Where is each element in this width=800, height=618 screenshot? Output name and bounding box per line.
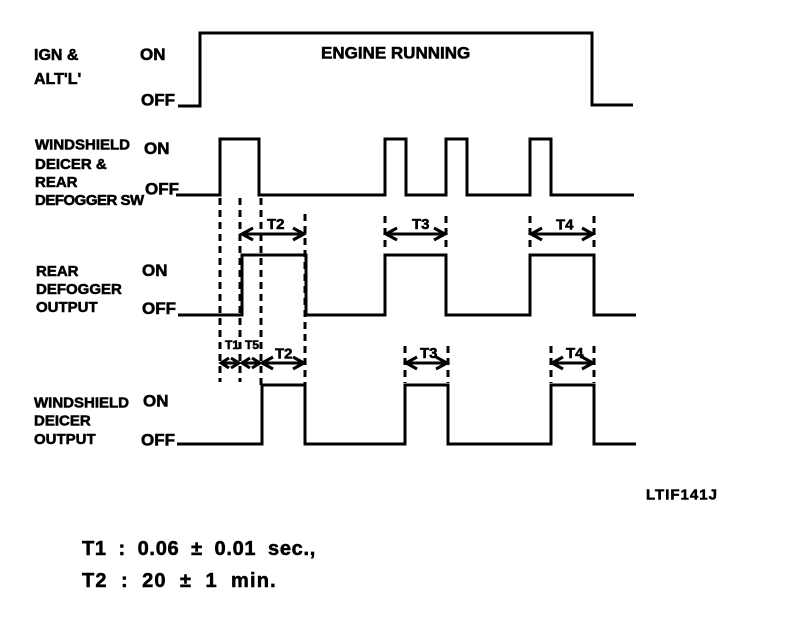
svg-text:LTIF141J: LTIF141J [646, 487, 718, 504]
arrow T3 (upper row) [386, 228, 445, 240]
arrow T5 (lower row) [242, 358, 260, 368]
svg-text:T1: T1 [225, 338, 239, 352]
dashed guide line x=305 [304, 214, 307, 386]
arrow T4 (upper row) [531, 228, 593, 240]
svg-text:ALT'L': ALT'L' [34, 71, 81, 88]
dashed guide line x=530 (T4 upper left) [529, 216, 532, 252]
svg-text:T3: T3 [420, 345, 438, 362]
dashed guide line x=594 (T4 upper right) [593, 216, 596, 252]
svg-text:DEFOGGER SW: DEFOGGER SW [35, 192, 145, 209]
svg-text:T2 : 20 ± 1 min.: T2 : 20 ± 1 min. [82, 570, 277, 592]
svg-text:T3: T3 [412, 216, 430, 233]
svg-text:OFF: OFF [141, 91, 175, 110]
arrow T4 (lower row) [552, 357, 593, 369]
svg-text:T2: T2 [267, 216, 285, 233]
arrow T1 (lower row) [221, 358, 239, 368]
svg-text:T4: T4 [556, 217, 574, 234]
arrow T2 (lower row) [262, 357, 304, 369]
svg-text:WINDSHIELD: WINDSHIELD [35, 137, 130, 154]
dashed guide line x=220 [219, 198, 222, 382]
svg-text:IGN &: IGN & [34, 47, 79, 64]
arrow T3 (lower row) [406, 357, 447, 369]
dashed guide line x=594 (T4 lower right) [593, 346, 596, 383]
svg-text:ON: ON [142, 261, 168, 280]
waveform WINDSHIELD DEICER & REAR DEFOGGER SW [176, 139, 634, 195]
svg-text:REAR: REAR [35, 174, 78, 191]
svg-text:ON: ON [143, 392, 169, 411]
dashed guide line x=448 (T3 lower right) [447, 346, 450, 383]
svg-text:REAR: REAR [36, 263, 79, 280]
svg-text:OUTPUT: OUTPUT [36, 299, 98, 316]
svg-text:OUTPUT: OUTPUT [34, 431, 96, 448]
dashed guide line x=405 (T3 lower left) [404, 346, 407, 383]
svg-text:ENGINE RUNNING: ENGINE RUNNING [321, 44, 470, 63]
svg-text:OFF: OFF [145, 180, 179, 199]
svg-text:WINDSHIELD: WINDSHIELD [34, 395, 129, 412]
waveform WINDSHIELD DEICER OUTPUT [177, 385, 636, 444]
svg-text:DEICER &: DEICER & [35, 156, 107, 173]
svg-text:T5: T5 [245, 338, 259, 352]
dashed guide line x=261 [260, 198, 263, 386]
svg-text:DEICER: DEICER [34, 413, 91, 430]
svg-text:T1 : 0.06 ± 0.01 sec.,: T1 : 0.06 ± 0.01 sec., [82, 538, 316, 560]
svg-text:ON: ON [144, 139, 170, 158]
svg-text:T4: T4 [566, 345, 584, 362]
dashed guide line x=240 [239, 198, 242, 382]
dashed guide line x=385 (T3 upper left) [384, 216, 387, 252]
svg-text:OFF: OFF [142, 299, 176, 318]
dashed guide line x=551 (T4 lower left) [550, 346, 553, 383]
waveform REAR DEFOGGER OUTPUT [178, 255, 636, 315]
svg-text:ON: ON [140, 45, 166, 64]
dashed guide line x=446 (T3 upper right) [445, 216, 448, 252]
svg-text:T2: T2 [275, 346, 293, 363]
waveform IGN & ALT'L' [178, 33, 633, 106]
svg-text:DEFOGGER: DEFOGGER [36, 281, 122, 298]
svg-text:OFF: OFF [141, 431, 175, 450]
arrow T2 (upper row) [242, 228, 304, 240]
